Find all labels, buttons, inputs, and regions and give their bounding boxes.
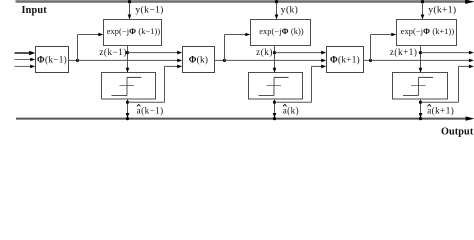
svg-text:exp(−jΦ (k−1)): exp(−jΦ (k−1)) bbox=[107, 27, 161, 36]
svg-text:y(k−1): y(k−1) bbox=[135, 4, 163, 15]
svg-text:exp(−jΦ (k+1)): exp(−jΦ (k+1)) bbox=[401, 27, 455, 36]
svg-text:a(k): a(k) bbox=[283, 105, 300, 115]
svg-text:Φ(k): Φ(k) bbox=[189, 55, 209, 65]
svg-text:y(k+1): y(k+1) bbox=[428, 4, 456, 15]
svg-text:Φ(k−1): Φ(k−1) bbox=[37, 55, 67, 65]
svg-text:z(k−1): z(k−1) bbox=[99, 47, 127, 57]
svg-text:Output: Output bbox=[441, 126, 474, 137]
svg-text:Φ(k+1): Φ(k+1) bbox=[330, 55, 360, 65]
svg-text:a(k−1): a(k−1) bbox=[137, 105, 164, 115]
svg-text:a(k+1): a(k+1) bbox=[427, 105, 454, 115]
svg-text:z(k): z(k) bbox=[256, 47, 273, 57]
svg-text:exp(−jΦ (k)): exp(−jΦ (k)) bbox=[259, 27, 304, 36]
svg-text:Input: Input bbox=[22, 5, 48, 16]
svg-text:y(k): y(k) bbox=[281, 4, 298, 15]
svg-text:z(k+1): z(k+1) bbox=[390, 47, 418, 57]
